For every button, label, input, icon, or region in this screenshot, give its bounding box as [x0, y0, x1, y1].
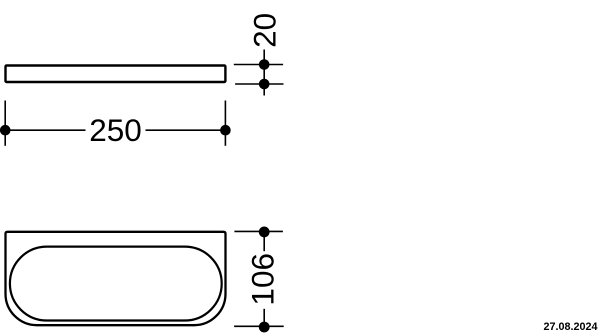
dimension line 250 right segment	[146, 129, 226, 131]
dimension line 250 left segment	[5, 129, 85, 131]
dimension dot 20 top	[259, 59, 270, 70]
dimension dot 250 left	[0, 125, 11, 136]
extension line top of dim 106	[234, 230, 283, 232]
extension line top of dim 20	[234, 64, 283, 66]
svg-text:106: 106	[245, 253, 281, 306]
dimension dot 250 right	[220, 125, 231, 136]
dimension line 106 upper segment	[263, 232, 265, 251]
dimension line 20 (vertical)	[263, 50, 265, 96]
plan view outer outline	[6, 232, 226, 325]
dimension line 106 lower segment	[263, 309, 265, 327]
extension line right of dim 250	[224, 101, 226, 146]
svg-text:20: 20	[247, 13, 283, 48]
extension line bottom of dim 20	[235, 83, 283, 85]
svg-text:250: 250	[89, 112, 142, 148]
side view outline (shelf profile rectangle)	[6, 66, 226, 83]
plan view inner outline (tray basin capsule)	[10, 247, 222, 321]
dimension dot 106 bottom	[259, 322, 270, 333]
extension line left of dim 250	[4, 101, 6, 146]
dimension dot 20 bottom	[259, 79, 270, 90]
dimension dot 106 top	[259, 227, 270, 238]
svg-text:27.08.2024: 27.08.2024	[543, 321, 597, 333]
extension line bottom of dim 106	[234, 325, 284, 327]
